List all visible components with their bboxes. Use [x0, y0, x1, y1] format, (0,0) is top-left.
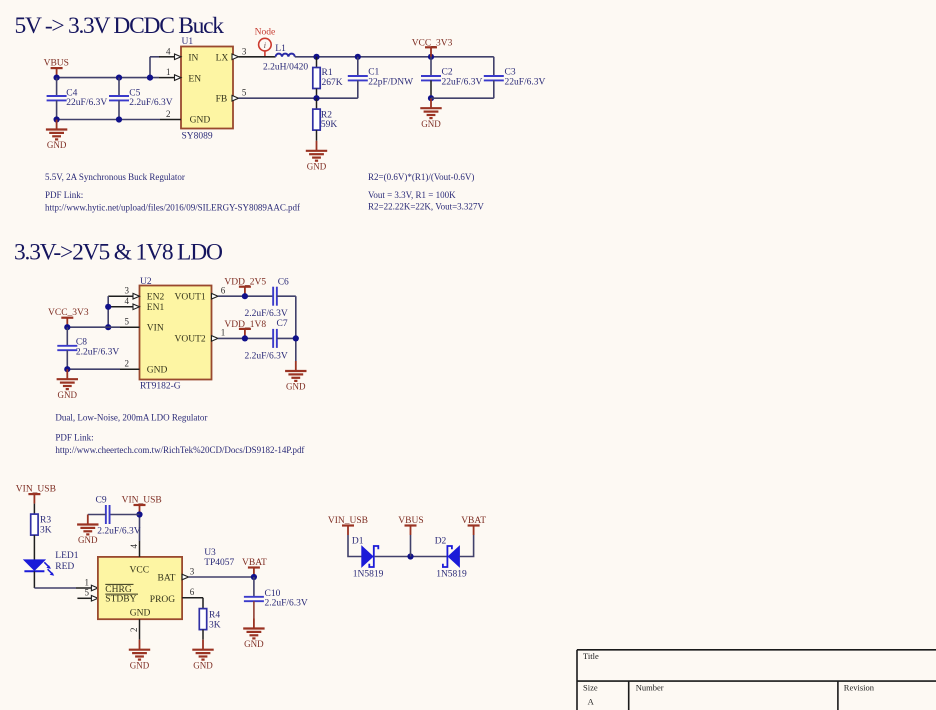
svg-text:3: 3	[125, 286, 130, 296]
inductor L1 2.2uH/0420	[263, 44, 308, 72]
svg-text:VBAT: VBAT	[461, 516, 486, 526]
junction C8 bottom	[64, 366, 70, 372]
svg-text:FB: FB	[216, 95, 228, 105]
junction C7 at vertical	[293, 335, 299, 341]
ground below R2	[306, 141, 327, 172]
capacitor C2	[421, 57, 483, 98]
capacitor C5	[109, 78, 173, 120]
LED LED1 RED	[24, 551, 79, 588]
svg-text:A: A	[588, 696, 595, 706]
wire GND bottom run	[57, 119, 160, 121]
resistor R4 3K	[199, 598, 220, 640]
svg-text:GND: GND	[190, 116, 211, 126]
svg-text:http://www.cheertech.com.tw/Ri: http://www.cheertech.com.tw/RichTek%20CD…	[55, 445, 304, 455]
svg-text:TP4057: TP4057	[204, 558, 234, 568]
U1 pin 5 (FB)	[232, 88, 247, 101]
svg-text:R1: R1	[322, 68, 333, 78]
svg-text:C3: C3	[505, 68, 516, 78]
ground below C4	[46, 120, 67, 151]
svg-text:Title: Title	[583, 651, 599, 661]
svg-text:VIN_USB: VIN_USB	[328, 516, 368, 526]
U2 pin 4 (EN1)	[108, 296, 139, 310]
svg-text:C1: C1	[368, 68, 379, 78]
capacitor C7	[245, 319, 296, 361]
wire VOUT2 run	[218, 337, 273, 339]
wire VIN run	[67, 326, 120, 328]
svg-text:Vout = 3.3V, R1 = 100K: Vout = 3.3V, R1 = 100K	[368, 190, 456, 200]
svg-text:5.5V, 2A Synchronous Buck Regu: 5.5V, 2A Synchronous Buck Regulator	[45, 172, 185, 182]
svg-text:STDBY: STDBY	[105, 595, 136, 605]
resistor R1 267K	[313, 57, 343, 98]
svg-text:22uF/6.3V: 22uF/6.3V	[442, 78, 483, 88]
svg-text:4: 4	[125, 296, 130, 306]
svg-text:4: 4	[166, 46, 171, 56]
U2 pin 5 (VIN)	[120, 317, 140, 328]
svg-text:GND: GND	[147, 366, 168, 376]
ground below R4	[192, 640, 213, 671]
U2 pin 1 (VOUT2)	[212, 328, 226, 342]
svg-text:VDD_2V5: VDD_2V5	[224, 278, 266, 288]
power flag VDD_2V5	[224, 278, 266, 297]
svg-text:3: 3	[190, 566, 195, 576]
wire VCC up to VIN_USB	[139, 515, 141, 542]
power flag VBUS (diode)	[398, 516, 423, 535]
svg-text:U1: U1	[182, 37, 194, 47]
wire jog to IN: horizontal	[150, 56, 160, 58]
resistor R2 59K	[313, 98, 338, 141]
junction R1/R2 on FB	[313, 95, 319, 101]
junction C9/VCC	[136, 511, 142, 517]
wire jog to IN: vertical	[149, 57, 151, 78]
svg-text:L1: L1	[275, 44, 286, 54]
ground below C2	[420, 98, 441, 129]
svg-text:267K: 267K	[322, 78, 343, 88]
svg-text:3K: 3K	[40, 526, 52, 536]
IC U3 TP4057 body	[98, 548, 235, 619]
svg-text:22uF/6.3V: 22uF/6.3V	[66, 98, 107, 108]
wire C9 left	[88, 514, 106, 516]
svg-text:U2: U2	[140, 277, 152, 287]
U1 pin 3 (LX)	[232, 46, 247, 59]
title block labels	[583, 651, 875, 707]
svg-text:3K: 3K	[209, 621, 221, 631]
svg-text:RT9182-G: RT9182-G	[140, 382, 181, 392]
capacitor C8	[57, 327, 119, 369]
wire VBUS horizontal	[57, 77, 159, 79]
svg-text:VCC: VCC	[130, 566, 150, 576]
U3 pin 4 (VCC) vertical	[129, 541, 140, 557]
power flag VIN_USB (diode)	[328, 516, 368, 535]
wire C9 right	[110, 514, 140, 516]
wire VIN_USB down to D1	[348, 535, 362, 557]
junction R1 top	[313, 54, 319, 60]
svg-text:VIN: VIN	[147, 324, 164, 334]
svg-text:http://www.hytic.net/upload/fi: http://www.hytic.net/upload/files/2016/0…	[45, 203, 300, 213]
junction C1 top	[355, 54, 361, 60]
svg-text:VOUT2: VOUT2	[175, 335, 206, 345]
svg-text:RED: RED	[55, 562, 74, 572]
power flag VBAT	[242, 558, 267, 577]
svg-text:SY8089: SY8089	[182, 132, 213, 142]
svg-text:Revision: Revision	[844, 683, 875, 693]
U3 pin 2 (GND) vertical	[129, 619, 140, 640]
wire VBUS stem	[410, 535, 412, 557]
IC U2 RT9182-G body	[140, 277, 212, 392]
resistor R3 3K	[31, 504, 52, 560]
power flag VCC_3V3 (LDO input)	[48, 308, 89, 327]
svg-text:PDF Link:: PDF Link:	[45, 190, 83, 200]
wire C6/C7 vertical to ground	[295, 296, 297, 361]
power flag VBUS	[44, 58, 69, 77]
svg-text:i: i	[264, 41, 266, 50]
capacitor C9	[96, 495, 141, 536]
svg-text:59K: 59K	[321, 120, 338, 130]
svg-text:2.2uF/6.3V: 2.2uF/6.3V	[76, 347, 119, 357]
svg-text:VIN_USB: VIN_USB	[16, 485, 56, 495]
svg-text:C9: C9	[96, 495, 107, 505]
svg-text:VIN_USB: VIN_USB	[122, 496, 162, 506]
diode D2 1N5819	[435, 536, 467, 579]
svg-text:2: 2	[129, 628, 139, 633]
U3 pin 6 (PROG)	[182, 587, 203, 598]
junction at C5 bottom	[116, 116, 122, 122]
svg-text:LX: LX	[216, 53, 229, 63]
wire D2 to VBAT	[459, 535, 473, 557]
svg-text:6: 6	[190, 587, 195, 597]
svg-text:PDF Link:: PDF Link:	[55, 433, 93, 443]
wire FB run	[239, 97, 358, 99]
U1 pin 2 (GND)	[160, 109, 181, 120]
svg-text:1: 1	[85, 577, 90, 587]
junction VBAT	[251, 574, 257, 580]
junction VBUS diode	[407, 553, 413, 559]
svg-text:1: 1	[166, 67, 171, 77]
svg-text:2.2uH/0420: 2.2uH/0420	[263, 62, 308, 72]
wire LED to CHRG	[34, 587, 76, 589]
capacitor C4	[47, 78, 108, 120]
svg-text:VCC_3V3: VCC_3V3	[48, 308, 89, 318]
svg-text:R3: R3	[40, 516, 51, 526]
capacitor C3	[484, 68, 546, 99]
svg-text:R4: R4	[209, 611, 220, 621]
svg-text:EN2: EN2	[147, 293, 165, 303]
svg-text:VBAT: VBAT	[242, 558, 267, 568]
svg-text:CHRG: CHRG	[105, 585, 132, 595]
junction at C4 bottom	[54, 116, 60, 122]
svg-text:EN: EN	[188, 74, 201, 84]
wire VOUT1 run	[218, 295, 273, 297]
svg-text:BAT: BAT	[158, 574, 176, 584]
U2 pin 2 (GND)	[120, 359, 140, 370]
wire BAT to VBAT	[189, 576, 254, 578]
svg-text:VOUT1: VOUT1	[175, 293, 206, 303]
svg-text:5: 5	[242, 88, 247, 98]
capacitor C10	[244, 577, 308, 619]
svg-text:1N5819: 1N5819	[353, 570, 384, 580]
svg-text:VBUS: VBUS	[398, 516, 423, 526]
ground below U3	[129, 640, 150, 671]
svg-text:22uF/6.3V: 22uF/6.3V	[505, 78, 546, 88]
svg-text:5: 5	[85, 588, 90, 598]
svg-text:C10: C10	[265, 589, 281, 599]
U2 pin 3 (EN2)	[108, 286, 139, 300]
svg-text:C2: C2	[442, 68, 453, 78]
junction at VBUS flag	[54, 75, 60, 81]
power flag VCC_3V3	[412, 38, 453, 57]
U3 pin 3 (BAT)	[182, 566, 195, 580]
junction VCC flag	[64, 324, 70, 330]
junction at C5 top	[116, 75, 122, 81]
svg-text:2.2uF/6.3V: 2.2uF/6.3V	[129, 98, 172, 108]
svg-text:2.2uF/6.3V: 2.2uF/6.3V	[245, 309, 288, 319]
node indicator (Node)	[255, 27, 276, 57]
ground below C6/C7	[285, 361, 306, 392]
svg-text:PROG: PROG	[150, 595, 175, 605]
wire EN jog vertical	[107, 296, 109, 327]
svg-text:2.2uF/6.3V: 2.2uF/6.3V	[245, 351, 288, 361]
wire D1 to D2	[375, 556, 447, 558]
ground at C9	[77, 515, 98, 546]
svg-text:2.2uF/6.3V: 2.2uF/6.3V	[97, 527, 140, 537]
junction EN1	[105, 304, 111, 310]
title block frame	[577, 650, 936, 710]
wire C2 to C3 loop bottom	[431, 97, 494, 99]
svg-text:D1: D1	[352, 536, 364, 546]
svg-text:VCC_3V3: VCC_3V3	[412, 38, 453, 48]
junction VDD_2V5	[242, 293, 248, 299]
ground below C8	[57, 369, 78, 400]
svg-text:4: 4	[129, 544, 139, 549]
U3 pin 5 (STDBY) stub	[77, 588, 98, 602]
op-amp U1 SY8089 regulator body	[181, 37, 233, 142]
power flag VIN_USB (charger input)	[122, 496, 162, 515]
U1 pin 4 (IN)	[159, 46, 181, 59]
svg-text:3: 3	[242, 46, 247, 56]
svg-text:2.2uF/6.3V: 2.2uF/6.3V	[265, 599, 308, 609]
svg-text:5V -> 3.3V DCDC Buck: 5V -> 3.3V DCDC Buck	[15, 13, 225, 39]
junction at IN jog	[147, 75, 153, 81]
svg-text:LED1: LED1	[55, 551, 78, 561]
power flag VDD_1V8	[224, 320, 266, 339]
wire L1 to VCC rail	[295, 56, 494, 58]
svg-text:C6: C6	[278, 277, 289, 287]
wire U2 GND run	[67, 368, 120, 370]
power flag VIN_USB (R3 branch)	[16, 485, 56, 504]
svg-text:U3: U3	[204, 548, 216, 558]
svg-text:C8: C8	[76, 338, 87, 348]
svg-text:1N5819: 1N5819	[436, 570, 467, 580]
svg-text:Dual, Low-Noise, 200mA LDO Reg: Dual, Low-Noise, 200mA LDO Regulator	[55, 413, 207, 423]
power flag VBAT (diode)	[461, 516, 486, 535]
wire LX to L1	[239, 56, 276, 58]
svg-text:Size: Size	[583, 683, 598, 693]
U3 pin 1 (CHRG)	[76, 577, 98, 591]
svg-text:IN: IN	[188, 53, 198, 63]
svg-text:R2=22.22K=22K, Vout=3.327V: R2=22.22K=22K, Vout=3.327V	[368, 202, 484, 212]
svg-text:C7: C7	[277, 319, 288, 329]
svg-text:5: 5	[125, 317, 130, 327]
svg-text:EN1: EN1	[147, 303, 165, 313]
diode D1 1N5819	[352, 536, 384, 579]
junction C2 top	[428, 54, 434, 60]
svg-text:22pF/DNW: 22pF/DNW	[368, 78, 413, 88]
svg-text:VBUS: VBUS	[44, 58, 69, 68]
svg-text:Node: Node	[255, 27, 276, 37]
wire C3 vertical top	[493, 57, 495, 76]
capacitor C6	[245, 277, 296, 319]
svg-text:GND: GND	[130, 609, 151, 619]
U1 pin 1 (EN)	[159, 67, 181, 80]
svg-text:R2=(0.6V)*(R1)/(Vout-0.6V): R2=(0.6V)*(R1)/(Vout-0.6V)	[368, 172, 474, 182]
svg-text:3.3V->2V5 & 1V8 LDO: 3.3V->2V5 & 1V8 LDO	[14, 240, 223, 266]
junction VDD_1V8	[242, 335, 248, 341]
junction EN jog at VIN	[105, 324, 111, 330]
svg-text:VDD_1V8: VDD_1V8	[224, 320, 266, 330]
capacitor C1 22pF/DNW	[348, 57, 413, 98]
svg-text:D2: D2	[435, 536, 447, 546]
junction C2 bottom	[428, 95, 434, 101]
ground below C10	[243, 619, 264, 650]
svg-text:Number: Number	[636, 683, 664, 693]
U2 pin 6 (VOUT1)	[212, 286, 226, 300]
svg-text:R2: R2	[321, 110, 332, 120]
svg-text:2: 2	[125, 359, 130, 369]
svg-text:2: 2	[166, 109, 171, 119]
